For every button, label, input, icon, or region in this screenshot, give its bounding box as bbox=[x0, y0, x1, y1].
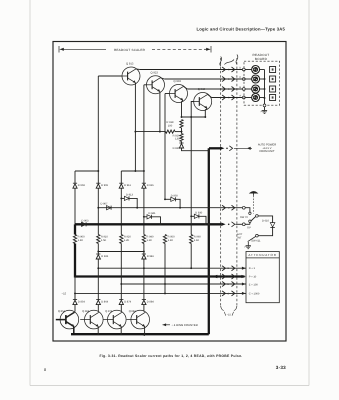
connector arrows att row y284 bbox=[222, 282, 246, 287]
wire colD below diode bbox=[143, 188, 145, 234]
bold wire auto power horiz bbox=[209, 147, 221, 149]
wire collector rail 2 bbox=[164, 78, 243, 80]
probe linkage dashed bbox=[253, 196, 255, 214]
connector arrows rail 3 bbox=[222, 86, 241, 91]
wire colB rail to diode bbox=[97, 171, 99, 183]
svg-text:D 907: D 907 bbox=[101, 203, 108, 206]
label SW 70 bbox=[240, 216, 248, 219]
label -15 bbox=[62, 293, 67, 296]
connector arrows rail 4 bbox=[222, 95, 241, 100]
indicator window 1 bbox=[270, 67, 276, 73]
junction colE 285 bbox=[164, 283, 166, 285]
connector arrows rail 1 bbox=[222, 67, 241, 72]
svg-text:D 906: D 906 bbox=[101, 184, 108, 187]
svg-text:−15: −15 bbox=[227, 313, 232, 316]
svg-text:D 903: D 903 bbox=[82, 219, 89, 222]
svg-text:1.1K: 1.1K bbox=[147, 239, 153, 242]
wire column B upper bbox=[97, 76, 99, 171]
pin probe row1 bbox=[242, 206, 245, 209]
page edge right bbox=[308, 0, 310, 386]
switch SW 70 contact upper bbox=[249, 212, 251, 214]
svg-text:D: D bbox=[239, 67, 241, 70]
wire lamp B904 to bus bbox=[259, 97, 264, 99]
wire column E upper bbox=[164, 94, 166, 200]
svg-text:1.1K: 1.1K bbox=[194, 239, 200, 242]
READOUT BOARD dashed box bbox=[244, 61, 280, 105]
switch SW 611 blade bbox=[248, 236, 256, 241]
svg-text:D 884: D 884 bbox=[147, 300, 154, 303]
wire D 884 to base bbox=[143, 305, 145, 312]
wire colF mid bbox=[190, 216, 192, 234]
ground probe switch bbox=[245, 246, 251, 249]
junction colE 293 bbox=[164, 292, 166, 294]
junction lamp bus 3 bbox=[264, 88, 266, 90]
wire collector rail 3 bbox=[187, 88, 243, 90]
svg-text:Q 854: Q 854 bbox=[58, 310, 66, 313]
wire colA rail to diode bbox=[74, 171, 76, 183]
svg-text:D 904: D 904 bbox=[78, 184, 85, 187]
wire column F bbox=[190, 117, 192, 216]
wire column D upper bbox=[143, 85, 145, 171]
node line y293 bbox=[75, 292, 246, 294]
rail segment A-B bbox=[75, 170, 98, 172]
pin P3 bbox=[242, 88, 245, 91]
ATTENUATOR title bbox=[246, 253, 279, 258]
svg-text:D 941: D 941 bbox=[149, 212, 156, 215]
wire auto power to label bbox=[234, 147, 252, 149]
wire bold to colA lower bbox=[74, 277, 76, 300]
wire emitter tie bbox=[182, 116, 206, 118]
junction colF 268 bbox=[190, 267, 192, 269]
junction emitter tie left bbox=[181, 116, 183, 118]
lamp return bus bbox=[264, 70, 266, 105]
svg-text:Q 874: Q 874 bbox=[105, 310, 113, 313]
connector arrows att row y293 bbox=[222, 291, 246, 296]
indicator window 2 bbox=[270, 76, 276, 82]
junction colC 285 bbox=[120, 283, 122, 285]
READOUT BOARD title bbox=[253, 53, 270, 61]
cable label -15 bbox=[224, 312, 233, 317]
wire colE lower bbox=[164, 244, 166, 294]
diode D 854 bbox=[73, 293, 85, 304]
ground readout board bbox=[261, 111, 267, 114]
wire Q933 base bbox=[165, 93, 170, 95]
bold wire auto power vert bbox=[208, 148, 210, 277]
wire TIP to blade bbox=[245, 223, 250, 225]
ATTENUATOR box bbox=[246, 252, 279, 303]
label INT bbox=[237, 237, 242, 240]
pin P2 bbox=[242, 78, 245, 81]
wire collector rail 4 bbox=[212, 97, 244, 99]
resistor R 960 bbox=[190, 235, 202, 244]
svg-text:Logic and Circuit Description—: Logic and Circuit Description—Type 3A5 bbox=[197, 27, 286, 32]
svg-text:D 926: D 926 bbox=[101, 255, 108, 258]
cable hook bottom left bbox=[221, 306, 224, 311]
junction rail D bbox=[143, 170, 145, 172]
wire pin to lamp 3 bbox=[245, 88, 252, 90]
wire Q933 emitter bbox=[182, 100, 183, 117]
svg-text:3-33: 3-33 bbox=[276, 365, 286, 370]
neon lamp B902 bbox=[252, 75, 260, 83]
svg-text:D: D bbox=[227, 283, 229, 286]
transistor Q933 bbox=[170, 80, 188, 102]
svg-text:D 946: D 946 bbox=[147, 255, 154, 258]
page edge left bbox=[29, 0, 31, 386]
schematic frame border bbox=[53, 42, 286, 342]
junction bus colB bbox=[97, 275, 99, 277]
arrowhead auto power bbox=[247, 147, 251, 150]
diode D 904 bbox=[73, 183, 85, 188]
label EXT bbox=[237, 233, 242, 236]
svg-text:1.5K: 1.5K bbox=[101, 239, 107, 242]
svg-text:C ÷ 1000: C ÷ 1000 bbox=[249, 292, 260, 295]
diode D907 bbox=[101, 203, 112, 210]
junction D907 tap bbox=[97, 207, 99, 209]
wire colC lower bbox=[120, 244, 122, 285]
label att div1000 bbox=[249, 292, 260, 295]
junction stack node bbox=[181, 131, 183, 133]
label SW 611 bbox=[251, 240, 261, 243]
riser emitter to rail bbox=[134, 170, 136, 172]
svg-text:D 935: D 935 bbox=[173, 147, 180, 150]
wire Q864 emitter bbox=[97, 326, 99, 334]
wire Q943 collector bbox=[208, 94, 212, 97]
wire Q923 collector bbox=[160, 78, 164, 79]
junction emitter node bbox=[134, 131, 136, 133]
svg-text:100: 100 bbox=[168, 124, 173, 127]
node line y207 bbox=[98, 207, 242, 209]
wire Q874 emitter bbox=[120, 326, 122, 334]
svg-text:D 854: D 854 bbox=[78, 300, 85, 303]
svg-text:8: 8 bbox=[44, 368, 46, 372]
resistor R 920 bbox=[120, 235, 132, 244]
svg-text:÷ 4 RING COUNTER: ÷ 4 RING COUNTER bbox=[172, 323, 198, 327]
svg-text:FROM UNIT: FROM UNIT bbox=[260, 150, 275, 153]
wire lamp B903 to bus bbox=[259, 88, 264, 90]
wire collector rail 1 bbox=[140, 69, 243, 71]
svg-text:D 913: D 913 bbox=[126, 194, 133, 197]
resistor R 910 bbox=[97, 235, 109, 244]
pin probe TIP bbox=[242, 223, 245, 226]
switch SW 611 contact bbox=[256, 234, 259, 237]
wire D935 to bold bus bbox=[182, 148, 209, 151]
svg-text:TIP: TIP bbox=[247, 226, 251, 229]
svg-text:E ÷ 100: E ÷ 100 bbox=[249, 283, 258, 286]
diode D903 bbox=[82, 219, 89, 226]
bold col A lower bbox=[74, 244, 76, 278]
wire SW70 loop right bbox=[258, 216, 272, 223]
diode D926 bbox=[96, 252, 109, 260]
diode D 884 bbox=[142, 268, 154, 304]
node line y131 bbox=[135, 131, 165, 133]
label att div10 bbox=[249, 276, 257, 279]
wire Q933 collector bbox=[183, 86, 187, 89]
interconnect dashed line 2 bbox=[236, 58, 238, 306]
wire Q943 emitter drop bbox=[204, 108, 207, 118]
junction Q864 emitter bbox=[97, 333, 99, 335]
svg-text:BOARD: BOARD bbox=[255, 57, 268, 61]
pin P4 bbox=[242, 96, 245, 99]
label AUTO POWER bbox=[258, 143, 276, 153]
bold bus TIP row bbox=[75, 223, 221, 225]
page number right bbox=[276, 365, 286, 370]
resistor R926 bbox=[173, 134, 184, 142]
wire colB lower bbox=[97, 244, 99, 252]
junction Q874 emitter bbox=[120, 333, 122, 335]
wire pin1 to SW70 bbox=[245, 208, 250, 212]
neon lamp B904 bbox=[252, 94, 260, 102]
wire Q913 base bbox=[98, 75, 122, 77]
diode D 911 bbox=[119, 183, 131, 188]
transistor Q864 bbox=[80, 310, 103, 329]
wire colD rail to diode bbox=[143, 171, 145, 183]
svg-text:Q 864: Q 864 bbox=[82, 310, 90, 313]
neon lamp B903 bbox=[252, 85, 260, 93]
svg-text:INT: INT bbox=[237, 237, 242, 240]
junction F col top bbox=[190, 116, 192, 118]
wire R918 to stack bbox=[175, 131, 182, 133]
svg-text:130: 130 bbox=[175, 138, 180, 141]
connector arrows att row y268 bbox=[222, 266, 246, 271]
wire colB to y268 bbox=[97, 259, 99, 268]
diode D 916 bbox=[142, 183, 154, 188]
page number left bbox=[44, 368, 46, 372]
svg-text:EXT: EXT bbox=[237, 233, 242, 236]
transistor Q884 bbox=[127, 310, 150, 329]
connector arrows att row2 bbox=[222, 274, 235, 279]
label TIP bbox=[247, 226, 251, 229]
wire Q923 emitter drop bbox=[159, 92, 161, 132]
resistor R 950 bbox=[163, 235, 175, 244]
node line y268 bbox=[98, 267, 246, 269]
figure caption bbox=[100, 354, 243, 358]
bold bus bottom horiz bbox=[71, 333, 209, 335]
svg-text:Q 913: Q 913 bbox=[126, 63, 134, 66]
diode D941 bbox=[143, 212, 161, 224]
wire colF lower bbox=[190, 244, 192, 269]
transistor Q854 bbox=[56, 310, 79, 329]
wire pin to lamp 1 bbox=[245, 69, 252, 71]
label att div100 bbox=[249, 283, 258, 286]
interconnect dashed line 1 bbox=[220, 58, 222, 306]
switch SW 70 blade bbox=[251, 217, 256, 221]
junction colB 268 bbox=[97, 267, 99, 269]
diode D913 bbox=[120, 194, 138, 209]
arrowhead bold right bbox=[242, 275, 246, 278]
wire pin to lamp 2 bbox=[245, 78, 252, 80]
svg-text:Q 923: Q 923 bbox=[151, 72, 159, 75]
svg-text:−15: −15 bbox=[62, 293, 67, 296]
wire colB below diode bbox=[97, 188, 99, 234]
wire D 854 to base bbox=[74, 305, 76, 312]
diode D610 bbox=[262, 219, 275, 227]
diode D950 bbox=[164, 194, 181, 208]
junction rail B bbox=[97, 170, 99, 172]
svg-text:D ÷ 1: D ÷ 1 bbox=[249, 267, 256, 270]
junction Q923 emitter bbox=[159, 131, 161, 133]
transistor Q913 bbox=[122, 63, 140, 85]
junction colD 268 bbox=[143, 267, 145, 269]
connector arrows rail 2 bbox=[222, 76, 241, 81]
wire colC below diode bbox=[120, 188, 122, 234]
bold bus attenuator row bbox=[75, 275, 245, 277]
svg-text:D 930: D 930 bbox=[195, 212, 202, 215]
wire lamp B901 to bus bbox=[259, 69, 264, 71]
junction lamp bus 4 bbox=[264, 97, 266, 99]
svg-text:D 610: D 610 bbox=[262, 219, 269, 222]
wire stack seg1 bbox=[181, 128, 183, 134]
label att div1 bbox=[249, 267, 256, 270]
svg-text:SW 70: SW 70 bbox=[240, 216, 248, 219]
svg-text:1.2K: 1.2K bbox=[78, 239, 84, 242]
junction lamp bus 2 bbox=[264, 78, 266, 80]
svg-text:C: C bbox=[239, 76, 241, 79]
wire blade pivot bbox=[249, 222, 251, 224]
junction D941 join bbox=[160, 223, 162, 225]
svg-text:1.2K: 1.2K bbox=[124, 239, 130, 242]
resistor R928 bbox=[180, 120, 183, 129]
svg-text:1.1K: 1.1K bbox=[168, 239, 174, 242]
svg-text:D 864: D 864 bbox=[101, 300, 108, 303]
diode D 874 bbox=[119, 284, 131, 305]
cable squiggle top bbox=[220, 55, 238, 67]
wire pin to lamp 4 bbox=[245, 97, 252, 99]
resistor R 940 bbox=[142, 235, 154, 244]
node line y285 bbox=[121, 283, 246, 285]
svg-text:Q 933: Q 933 bbox=[174, 80, 182, 83]
wire D 864 to base bbox=[97, 305, 99, 312]
header text bbox=[197, 27, 286, 32]
bold bus bottom vert bbox=[208, 277, 210, 335]
pin P1 bbox=[242, 68, 245, 71]
resistor R918 bbox=[166, 121, 176, 133]
probe tip symbol bbox=[250, 191, 258, 195]
wire colD to y268 bbox=[143, 259, 145, 268]
bold col A upper bbox=[74, 224, 76, 234]
resistor R 900 bbox=[73, 235, 85, 244]
wire SW611 pivot to ground bbox=[247, 242, 249, 246]
svg-text:C: C bbox=[227, 292, 229, 295]
diode D930 bbox=[190, 212, 206, 225]
connector arrows auto power bbox=[220, 146, 233, 151]
svg-text:Q 943: Q 943 bbox=[198, 88, 206, 91]
arrowhead bold mid bbox=[213, 275, 217, 279]
wire Q854 emitter bbox=[73, 326, 75, 334]
junction colB 250 bbox=[97, 251, 99, 253]
wire Q923 base bbox=[144, 84, 147, 86]
label ring counter bbox=[163, 323, 198, 327]
transistor Q943 bbox=[194, 88, 212, 110]
indicator window 4 bbox=[270, 86, 276, 92]
svg-text:D 916: D 916 bbox=[147, 184, 154, 187]
dimension line READOUT SCALER bbox=[59, 46, 211, 53]
diode D 906 bbox=[96, 183, 108, 188]
svg-text:D 950: D 950 bbox=[171, 194, 178, 197]
wire Q884 emitter bbox=[144, 326, 146, 334]
junction colA 293 bbox=[74, 292, 76, 294]
pin board ground bbox=[263, 104, 266, 107]
neon lamp B901 bbox=[252, 66, 260, 74]
wire lamp B902 to bus bbox=[259, 78, 264, 80]
connector arrows probe row bbox=[222, 205, 235, 210]
junction bold cross bbox=[208, 223, 210, 225]
junction bus colD bbox=[143, 275, 145, 277]
wire Q943 base jog bbox=[191, 102, 194, 118]
svg-text:ATTENUATOR: ATTENUATOR bbox=[248, 253, 276, 257]
indicator window 8 bbox=[270, 95, 276, 101]
wire D610 down bbox=[258, 227, 272, 235]
junction D935 bus bbox=[208, 150, 210, 152]
diode D935 bbox=[173, 142, 184, 150]
wire D 874 to base bbox=[120, 305, 122, 312]
wire colC rail to diode bbox=[120, 171, 122, 183]
wire TIP row thin bbox=[236, 223, 243, 225]
diode D 864 bbox=[96, 268, 108, 304]
transistor Q923 bbox=[147, 72, 165, 94]
transistor Q874 bbox=[103, 310, 126, 329]
svg-text:Q 884: Q 884 bbox=[129, 310, 137, 313]
svg-text:D 911: D 911 bbox=[124, 184, 131, 187]
junction bold corner bbox=[208, 275, 211, 278]
switch SW 70 contact lower bbox=[249, 220, 251, 222]
wire Q913 collector bbox=[136, 68, 140, 71]
diode D946 bbox=[142, 254, 155, 259]
cable hook bottom right bbox=[234, 306, 237, 311]
wire board to ground bbox=[264, 107, 266, 111]
svg-text:P ÷ 10: P ÷ 10 bbox=[249, 276, 257, 279]
junction D930 join bbox=[205, 223, 207, 225]
svg-text:SW 611: SW 611 bbox=[251, 240, 261, 243]
svg-text:READOUT SCALER: READOUT SCALER bbox=[114, 48, 146, 52]
rail segment C-D bbox=[121, 170, 144, 172]
switch SW 70 pivot bbox=[256, 215, 259, 218]
wire Q913 emitter drop bbox=[134, 83, 136, 171]
arrowhead bottom bus bbox=[141, 332, 145, 336]
wire colD lower bbox=[143, 244, 145, 255]
junction Q884 emitter bbox=[144, 333, 146, 335]
junction colD 250 bbox=[143, 251, 145, 253]
svg-text:D 874: D 874 bbox=[124, 300, 131, 303]
connector arrows TIP row bbox=[221, 222, 235, 227]
wire colA below diode bbox=[74, 188, 76, 224]
node line y250 bbox=[98, 251, 144, 253]
svg-text:Fig. 3-31. Readout Scaler curr: Fig. 3-31. Readout Scaler current paths … bbox=[100, 354, 243, 358]
page edge bottom bbox=[30, 385, 309, 387]
